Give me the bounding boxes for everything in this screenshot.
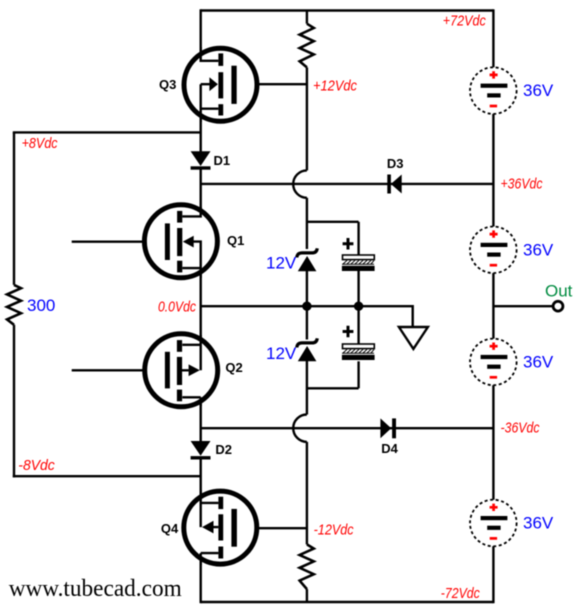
wire Out line [493, 305, 552, 307]
label -72Vdc [441, 585, 480, 602]
capacitor C1 [342, 238, 375, 271]
zener diode Z2 12V [297, 338, 317, 361]
svg-text:www.tubecad.com: www.tubecad.com [9, 576, 182, 602]
wire left rail D1 to +36V node [199, 168, 201, 217]
label +12Vdc [313, 78, 357, 95]
junction dot cap rail / 0V [354, 302, 363, 311]
label www.tubecad.com [9, 576, 182, 602]
wire left outer rail lower [13, 325, 15, 478]
label D3 [387, 156, 404, 171]
wire mid rail zener2 to hop [306, 361, 308, 415]
wire left main rail top segment [199, 9, 201, 61]
resistor R 300 (left rail) [7, 285, 21, 325]
wire -36Vdc line [201, 427, 494, 429]
wire 0V line [201, 305, 413, 307]
transistor Q3 [184, 47, 257, 122]
svg-text:D1: D1 [214, 153, 231, 168]
label 12V (Z1) [266, 254, 297, 273]
label D4 [381, 441, 398, 456]
label 12V (Z2) [266, 344, 297, 363]
wire cap rail upper [357, 222, 359, 255]
transistor Q4 [184, 490, 257, 565]
resistor bottom (mid rail) [300, 544, 314, 589]
svg-text:36V: 36V [523, 353, 554, 372]
label D1 [214, 153, 231, 168]
wire mid rail bottom (resistor to bottom rail) [306, 589, 308, 602]
svg-text:36V: 36V [523, 81, 554, 100]
svg-text:12V: 12V [266, 254, 297, 273]
svg-text:Q1: Q1 [227, 233, 244, 248]
wire right rail B3-B4 [492, 382, 494, 500]
svg-text:-36Vdc: -36Vdc [501, 420, 540, 437]
wire bottom rail [201, 601, 494, 603]
battery B3 36V [470, 339, 517, 386]
diode D4 [380, 418, 396, 438]
wire cap link upper [307, 221, 359, 223]
wire cap link lower [307, 387, 359, 389]
label D2 [215, 442, 232, 457]
svg-text:+12Vdc: +12Vdc [313, 78, 357, 95]
wire dot to cap2 [357, 306, 359, 344]
wire top rail [201, 9, 494, 11]
svg-text:Q4: Q4 [161, 521, 179, 536]
ground symbol [399, 327, 428, 349]
svg-text:D2: D2 [215, 442, 232, 457]
label 36V (B1) [523, 81, 554, 100]
wire right rail B1 top [492, 9, 494, 68]
wire right rail B4 bottom [492, 546, 494, 603]
wire +8Vdc line [13, 131, 201, 133]
label Q1 [227, 233, 244, 248]
wire -12V gate line Q4 [237, 527, 307, 529]
svg-text:Q3: Q3 [159, 77, 176, 92]
svg-text:-12Vdc: -12Vdc [314, 522, 354, 539]
wire Q1 gate stub [72, 240, 165, 242]
resistor top (mid rail) [300, 24, 314, 68]
svg-text:-8Vdc: -8Vdc [18, 457, 55, 474]
junction dot mid rail / 0V [302, 302, 311, 311]
svg-text:-72Vdc: -72Vdc [441, 585, 480, 602]
battery B1 36V [470, 67, 517, 114]
diode D3 [387, 175, 401, 194]
wire cap1 to dot [357, 271, 359, 306]
svg-text:D3: D3 [387, 156, 404, 171]
svg-text:+36Vdc: +36Vdc [501, 176, 543, 193]
label Out [545, 282, 573, 301]
Out terminal [553, 301, 563, 311]
wire mid rail -12V node segment [306, 442, 308, 545]
label -12Vdc [314, 522, 354, 539]
label +36Vdc [501, 176, 543, 193]
svg-text:300: 300 [27, 296, 55, 315]
label 36V (B3) [523, 353, 554, 372]
wire mid rail top (top rail to resistor) [306, 11, 308, 24]
svg-text:Out: Out [545, 282, 573, 301]
wire mid rail dot to zener2 [306, 306, 308, 339]
node hop over +36V line [293, 170, 307, 197]
wire left outer rail upper (to 300 resistor) [13, 132, 15, 285]
label -8Vdc [18, 457, 55, 474]
wire +36Vdc line [201, 183, 494, 185]
wire left rail Q2 to D2 [199, 397, 201, 441]
wire right rail B1-B2 [492, 114, 494, 230]
wire left rail Q1 source to Q2 drain [199, 268, 201, 345]
wire -8Vdc line [13, 475, 201, 477]
label 36V (B2) [523, 241, 554, 260]
wire cap2 to link [357, 361, 359, 388]
diode D2 [191, 441, 211, 460]
svg-text:12V: 12V [266, 344, 297, 363]
label 300 [27, 296, 55, 315]
label Q3 [159, 77, 176, 92]
svg-text:Q2: Q2 [225, 360, 242, 375]
wire mid rail zener1 segment [306, 198, 308, 249]
svg-text:36V: 36V [523, 514, 554, 533]
label Q2 [225, 360, 242, 375]
wire ground drop [412, 305, 414, 327]
battery B4 36V [470, 500, 517, 547]
diode D1 [191, 151, 211, 170]
wire right rail B2-B3 [492, 270, 494, 341]
svg-text:+8Vdc: +8Vdc [22, 135, 58, 152]
wire left rail D2 to Q4 [199, 458, 201, 503]
zener diode Z1 12V [297, 248, 317, 271]
svg-text:0.0Vdc: 0.0Vdc [158, 299, 196, 316]
battery B2 36V [470, 227, 517, 274]
label 0.0Vdc [158, 299, 196, 316]
label Q4 [161, 521, 179, 536]
label +72Vdc [443, 13, 486, 30]
svg-text:D4: D4 [381, 441, 398, 456]
capacitor C2 [342, 326, 375, 360]
svg-text:36V: 36V [523, 241, 554, 260]
label 36V (B4) [523, 514, 554, 533]
node hop over -36V line [293, 415, 307, 442]
label +8Vdc [22, 135, 58, 152]
wire left rail Q4 to bottom rail [199, 553, 201, 603]
transistor Q2 [145, 334, 218, 407]
label -36Vdc [501, 420, 540, 437]
svg-text:+72Vdc: +72Vdc [443, 13, 486, 30]
wire mid rail zener1 to dot [306, 271, 308, 306]
wire +12V gate line Q3 [237, 83, 307, 85]
wire left rail Q3-source to D1 [199, 109, 201, 152]
wire mid rail +12V node segment [306, 67, 308, 170]
wire Q2 gate stub [72, 369, 165, 371]
transistor Q1 [144, 205, 217, 278]
